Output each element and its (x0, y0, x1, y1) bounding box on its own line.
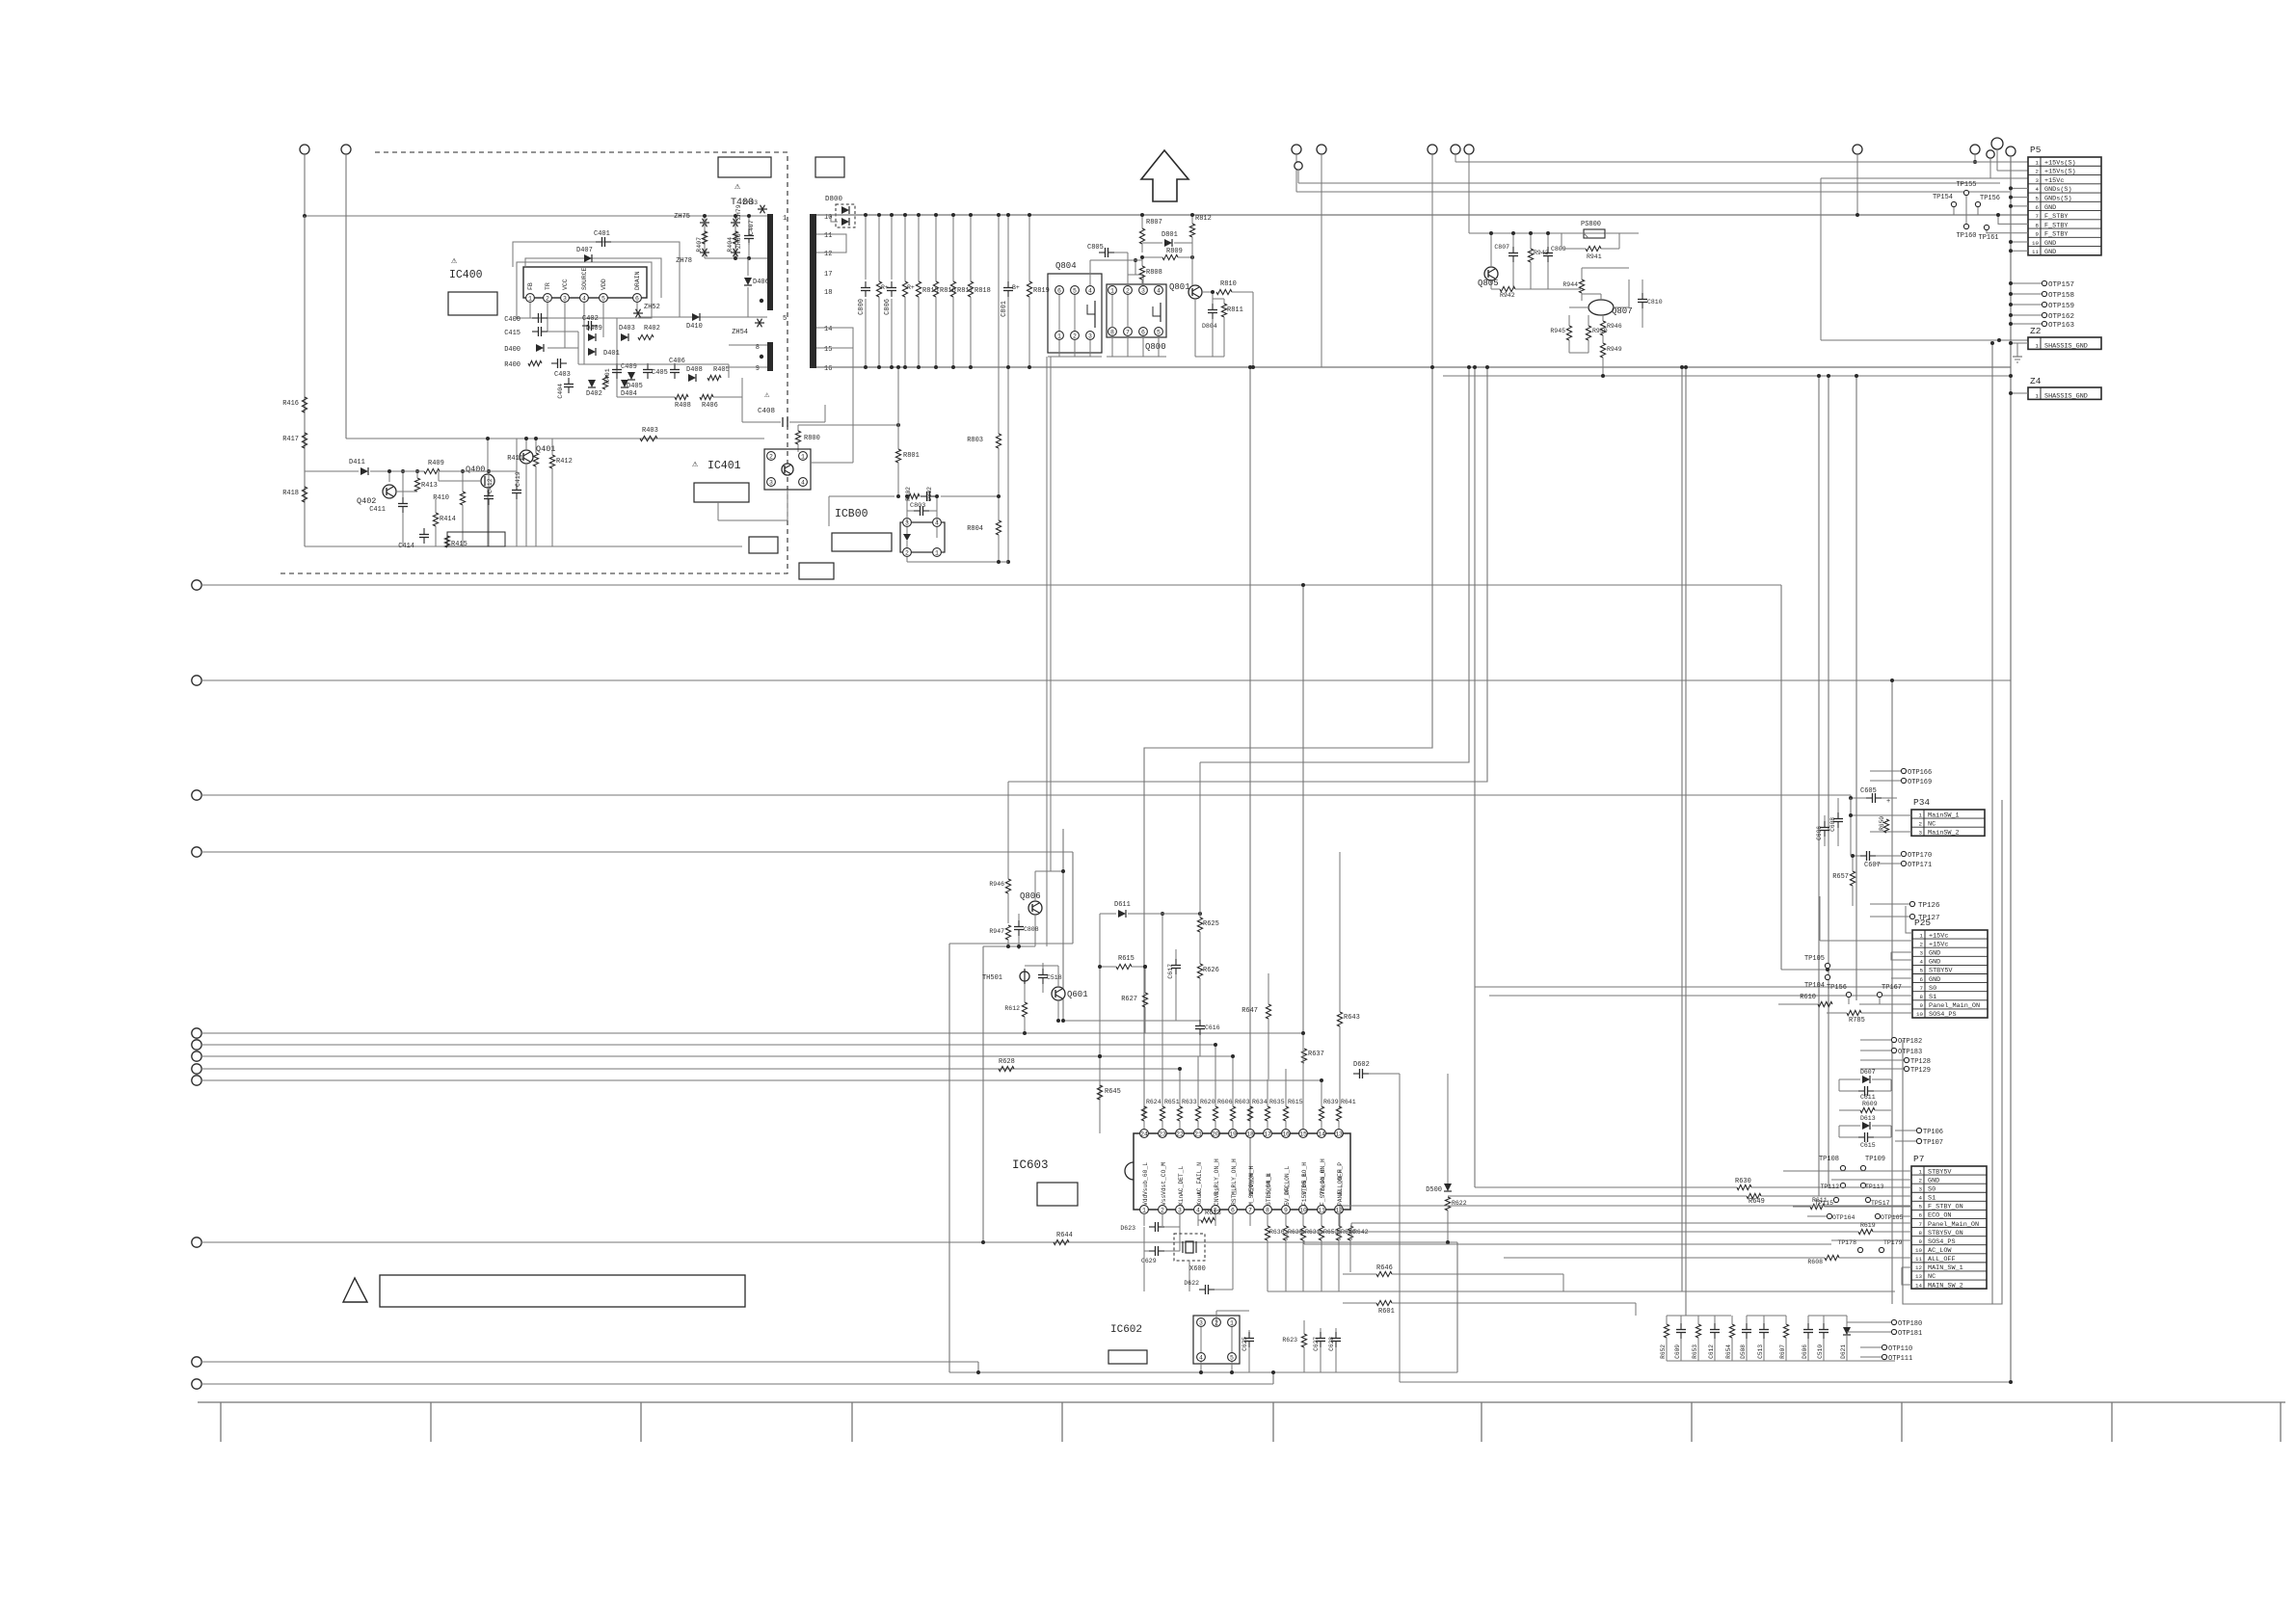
wire p5 f_stby row8 (1996, 213, 2028, 224)
diode D404 (621, 380, 637, 398)
diode D403 (619, 325, 635, 341)
spark gap ZH78 (676, 249, 709, 265)
svg-text:R802: R802 (905, 487, 912, 501)
svg-text:AC_FAIL_N: AC_FAIL_N (1196, 1162, 1203, 1195)
svg-text:ALL_OFF: ALL_OFF (1928, 1256, 1956, 1264)
ic IC603 label (1012, 1158, 1049, 1172)
svg-text:C605: C605 (1860, 787, 1877, 795)
test point TP156b (1827, 984, 1852, 1004)
opto-coupler Q800 (1107, 258, 1166, 357)
svg-text:R947: R947 (989, 928, 1004, 935)
mcu IC603 body (1125, 1133, 1350, 1210)
svg-text:R620: R620 (1200, 1099, 1215, 1105)
svg-text:R413: R413 (421, 482, 438, 490)
svg-text:R405: R405 (713, 366, 730, 374)
svg-text:R800: R800 (804, 435, 820, 442)
wire ic401 wires (657, 439, 853, 520)
svg-text:R601: R601 (1378, 1308, 1395, 1316)
svg-text:8: 8 (1920, 994, 1924, 1000)
svg-text:1: 1 (2036, 159, 2040, 166)
wire vert 1897 (1827, 374, 1830, 1187)
svg-text:10: 10 (1915, 1247, 1922, 1254)
test points OTP182/183 TP128/129 (1860, 1037, 1931, 1075)
capacitor C419 (512, 471, 521, 546)
resistor R809 (1142, 248, 1194, 260)
resistor R942 (1491, 280, 1581, 299)
transformer pin10 (824, 214, 832, 222)
capacitor C400 (504, 313, 547, 324)
test point OTP181 (1847, 1329, 1922, 1338)
svg-text:TP160: TP160 (1956, 232, 1976, 240)
svg-text:1: 1 (935, 550, 939, 557)
svg-text:R603: R603 (1235, 1099, 1250, 1105)
svg-text:D622: D622 (1184, 1280, 1199, 1287)
svg-text:3: 3 (2036, 177, 2040, 184)
svg-text:R646: R646 (1376, 1264, 1393, 1272)
crystal X600 (1174, 1213, 1206, 1291)
resistor R946 (1600, 315, 1621, 335)
node terminal 2065 (1987, 150, 2028, 178)
svg-text:C404: C404 (557, 384, 564, 399)
resistor R406 (700, 394, 718, 410)
svg-text:4: 4 (801, 480, 805, 487)
svg-text:R612: R612 (1004, 1005, 1020, 1012)
svg-text:P25: P25 (1914, 918, 1931, 928)
svg-text:R637: R637 (1308, 1051, 1324, 1058)
diode D411 (349, 459, 368, 475)
svg-text:15: 15 (1299, 1131, 1307, 1138)
resistor R949 (1600, 335, 1621, 378)
svg-text:GND: GND (1929, 959, 1940, 967)
svg-text:20: 20 (1212, 1131, 1219, 1138)
resistor R626 (1197, 964, 1218, 1021)
svg-text:STB5_ON_L: STB5_ON_L (1266, 1173, 1272, 1206)
svg-text:F15V_ON_L: F15V_ON_L (1301, 1173, 1308, 1206)
ICB00 part box (832, 533, 892, 551)
svg-text:D801: D801 (1161, 231, 1178, 239)
svg-text:C411: C411 (369, 506, 386, 514)
diode D602 (1322, 1061, 2013, 1384)
svg-text:R418: R418 (282, 490, 299, 497)
svg-text:4: 4 (1919, 1195, 1923, 1202)
svg-text:ZH52: ZH52 (644, 304, 660, 311)
svg-text:C808: C808 (1024, 926, 1039, 933)
test point TP517 (1865, 1197, 1889, 1207)
svg-text:VDD: VDD (601, 279, 607, 290)
node terminal 1486 (1428, 145, 1437, 367)
capacitor C412 (484, 469, 494, 546)
diode D801 (1142, 231, 1192, 253)
svg-text:11: 11 (1915, 1256, 1922, 1263)
svg-text:1: 1 (2036, 343, 2040, 350)
resistor R413 (414, 469, 437, 492)
capacitor C809 (1543, 231, 1566, 289)
svg-text:GND: GND (1928, 1177, 1939, 1184)
svg-text:R408: R408 (675, 402, 691, 410)
svg-text:5V_ON_L: 5V_ON_L (1284, 1180, 1291, 1206)
diode D410 (686, 313, 703, 331)
IC400 body (517, 262, 652, 318)
svg-text:3: 3 (1919, 1185, 1923, 1192)
transformer pin5 (760, 299, 787, 323)
wire p5 pin3 feed (1821, 178, 2028, 342)
op-amp IC400 label (449, 256, 483, 281)
svg-text:IC400: IC400 (449, 269, 483, 281)
wire vert 1530 (1473, 365, 1477, 1187)
diode D408 (686, 366, 703, 382)
svg-text:R633: R633 (1182, 1099, 1197, 1105)
svg-text:4: 4 (1920, 959, 1924, 966)
IC603 bottom pins (1140, 1206, 1344, 1214)
svg-text:R944: R944 (1562, 281, 1578, 288)
resistor R645 (1097, 1054, 1120, 1133)
wire pin5 line (638, 316, 767, 318)
wire p7 row12 (1902, 1267, 1911, 1285)
resistor R628 (999, 1058, 1015, 1072)
svg-text:7: 7 (2036, 213, 2040, 220)
svg-text:R647: R647 (1241, 1007, 1258, 1015)
test point TP154 (1933, 194, 1957, 215)
test point TP112 (1820, 1183, 1845, 1190)
svg-text:3: 3 (1088, 333, 1092, 340)
svg-text:R650: R650 (1879, 816, 1885, 831)
wire icb00 nets (829, 494, 1008, 564)
wire zh rail (705, 256, 769, 260)
capacitor C810 (1638, 279, 1663, 328)
connector P5 (2028, 145, 2101, 256)
resistor R943 (1528, 231, 1548, 289)
svg-text:TP105: TP105 (1804, 955, 1825, 963)
svg-text:R608: R608 (1807, 1259, 1823, 1265)
svg-text:R619: R619 (1860, 1222, 1876, 1229)
wire q800 top net (1090, 260, 1142, 285)
svg-text:AC_LOW: AC_LOW (1928, 1247, 1952, 1255)
svg-text:3: 3 (563, 296, 567, 303)
svg-text:R654: R654 (1725, 1344, 1732, 1359)
node terminal 2049 (1970, 145, 1980, 164)
svg-text:TP129: TP129 (1910, 1067, 1931, 1075)
test point TP178 (1837, 1239, 1862, 1253)
wire join block (949, 944, 1457, 1372)
svg-text:2: 2 (1920, 941, 1924, 947)
svg-text:FB: FB (527, 282, 534, 290)
svg-text:ZH80: ZH80 (735, 233, 742, 249)
resistor R613 (1198, 1210, 1221, 1223)
svg-text:D404: D404 (621, 390, 637, 398)
svg-text:R627: R627 (1121, 996, 1137, 1003)
svg-text:R416: R416 (282, 400, 299, 408)
svg-text:+15Vc: +15Vc (1929, 941, 1948, 948)
transistor Q400 (439, 437, 494, 546)
transformer T400 primary bar2 (767, 342, 773, 371)
svg-text:C407: C407 (748, 220, 755, 235)
resistor R946b (989, 782, 1010, 923)
svg-text:Z4: Z4 (2030, 376, 2042, 386)
diode D400 (504, 344, 544, 354)
svg-text:+: + (1886, 798, 1890, 806)
svg-text:5: 5 (1919, 1204, 1923, 1211)
svg-text:11: 11 (1318, 1208, 1325, 1214)
svg-text:TP128: TP128 (1910, 1058, 1931, 1066)
svg-text:IC603: IC603 (1012, 1158, 1049, 1172)
test point TP109 (1860, 1156, 1885, 1171)
svg-text:Vss: Vss (1161, 1194, 1167, 1206)
svg-text:R942: R942 (1500, 292, 1515, 299)
resistor R409 (424, 460, 444, 474)
svg-text:15: 15 (824, 346, 832, 354)
capacitor C406 (669, 358, 685, 379)
capacitor D802 (921, 487, 936, 501)
resistor R950 (1586, 315, 1607, 353)
connector Z2 (2009, 326, 2101, 351)
svg-text:R625: R625 (1203, 920, 1219, 928)
svg-text:R414: R414 (440, 516, 456, 523)
svg-text:2: 2 (1126, 288, 1130, 295)
wire p7 row7 long (1350, 1223, 1352, 1240)
test point TP107 (1895, 1138, 1943, 1147)
svg-text:OTP164: OTP164 (1832, 1214, 1855, 1221)
svg-text:M_SW_ON_H: M_SW_ON_H (1248, 1173, 1255, 1206)
resistor R637 (1301, 1049, 1323, 1063)
test point TP105 (1804, 955, 1830, 971)
connector P7 (1911, 1154, 1987, 1290)
svg-text:STBY5V: STBY5V (1928, 1168, 1952, 1176)
svg-text:2: 2 (1073, 333, 1077, 340)
svg-text:9: 9 (2036, 231, 2040, 238)
capacitor C625 (1241, 1330, 1254, 1372)
test point OTP180 (1847, 1319, 1922, 1328)
svg-text:R809: R809 (1166, 248, 1183, 255)
svg-text:1: 1 (783, 215, 787, 223)
test point TP167 (1877, 984, 1902, 1004)
wire bottom rails (1268, 1291, 1895, 1361)
transformer pin14 (816, 326, 839, 333)
capacitor C415 (504, 327, 547, 337)
svg-text:R402: R402 (644, 325, 660, 333)
svg-text:R812: R812 (1195, 215, 1212, 223)
svg-text:F_STBY: F_STBY (2044, 222, 2068, 229)
capacitor C801 column (1001, 213, 1020, 564)
svg-text:TP104: TP104 (1804, 982, 1825, 990)
resistor R408 (675, 394, 691, 410)
diode D409 (586, 325, 602, 341)
wire d622 c625 (1216, 1311, 1249, 1330)
svg-text:C807: C807 (1494, 244, 1509, 251)
svg-text:C518: C518 (1047, 974, 1062, 981)
svg-text:C608: C608 (1829, 817, 1836, 832)
resistor R414 (433, 499, 455, 546)
capacitor C402 (582, 315, 599, 331)
diode D407 loop (525, 247, 661, 298)
resistor R819 column (1027, 213, 1049, 369)
capacitor C607 (1851, 851, 1901, 869)
capacitor C414 (398, 528, 429, 550)
IC603 column risers (1178, 1031, 1323, 1106)
resistor R601 (1343, 1300, 1636, 1316)
svg-text:R641: R641 (1341, 1099, 1356, 1105)
diode D402 (586, 380, 602, 398)
test point TP126 (1870, 901, 1940, 910)
svg-text:TP126: TP126 (1918, 902, 1940, 910)
svg-text:TP161: TP161 (1978, 234, 1998, 242)
svg-text:SOURCE: SOURCE (581, 267, 588, 290)
connector Z4 (2009, 376, 2101, 401)
svg-text:4: 4 (1157, 288, 1161, 295)
svg-text:R818: R818 (974, 287, 991, 295)
IC401 part box (694, 483, 749, 502)
svg-text:SOS4_PS: SOS4_PS (1929, 1011, 1957, 1019)
wire q805 rail (1469, 231, 1639, 267)
transistor Q806 (1020, 891, 1042, 915)
svg-text:1: 1 (1920, 932, 1924, 939)
svg-text:Xout: Xout (1196, 1191, 1203, 1206)
resistor R644 (1054, 1232, 1073, 1245)
capacitor C623 (1120, 1213, 1180, 1232)
svg-text:B+: B+ (1012, 284, 1020, 291)
svg-text:Panel_Main_ON: Panel_Main_ON (1928, 1221, 1979, 1229)
IC603 part box (1037, 1183, 1078, 1206)
resistor R611 (1793, 1197, 1911, 1210)
svg-text:C803: C803 (910, 502, 925, 510)
resistors below IC603 (1144, 1213, 1356, 1291)
svg-text:MainSW_2: MainSW_2 (1928, 830, 1960, 838)
resistor R608 (1504, 1255, 1911, 1265)
svg-text:R412: R412 (556, 458, 573, 466)
svg-text:13: 13 (1915, 1273, 1922, 1280)
test point OTP166 (1870, 768, 1932, 777)
svg-text:7: 7 (1920, 985, 1924, 992)
svg-text:D405: D405 (627, 383, 643, 390)
label box A (718, 157, 771, 177)
resistor R800 (795, 423, 900, 452)
svg-text:P7: P7 (1913, 1154, 1924, 1164)
wire q807 links (1569, 268, 1629, 353)
warning tri T400 (731, 182, 754, 208)
svg-text:R615: R615 (1288, 1099, 1303, 1105)
svg-text:D606: D606 (1802, 1344, 1808, 1359)
svg-text:AC_DET_L: AC_DET_L (1178, 1166, 1185, 1195)
svg-text:C415: C415 (504, 330, 521, 337)
resistor PS800 (1562, 221, 1619, 238)
svg-text:9: 9 (1920, 1002, 1924, 1009)
svg-text:R409: R409 (428, 460, 444, 467)
svg-text:TP155: TP155 (1956, 181, 1976, 189)
svg-text:SOS4_PS: SOS4_PS (1928, 1238, 1956, 1246)
capacitor C605 (1849, 787, 1897, 806)
capacitor C804 (1202, 290, 1217, 357)
svg-text:R946: R946 (1607, 323, 1622, 330)
svg-text:TR: TR (545, 282, 551, 290)
svg-text:R785: R785 (1849, 1017, 1865, 1024)
svg-text:R407: R407 (696, 237, 703, 253)
svg-text:⚠: ⚠ (451, 256, 458, 267)
svg-text:D613: D613 (1860, 1115, 1876, 1122)
resistor R610 (1778, 994, 1912, 1007)
svg-text:R400: R400 (504, 361, 521, 369)
svg-text:R949: R949 (1607, 346, 1622, 353)
wire main return trunk (816, 366, 2011, 368)
svg-text:ZH75: ZH75 (674, 213, 690, 221)
svg-text:TP178: TP178 (1837, 1239, 1856, 1246)
svg-text:22: 22 (1176, 1131, 1184, 1138)
svg-text:R645: R645 (1105, 1088, 1121, 1096)
test points OTP157-163 (2009, 280, 2075, 330)
svg-text:⚠: ⚠ (764, 390, 770, 400)
svg-text:3: 3 (1178, 1208, 1182, 1214)
svg-text:D804: D804 (1202, 323, 1217, 330)
svg-text:4: 4 (1199, 1355, 1203, 1362)
svg-text:+15Vs(S): +15Vs(S) (2044, 169, 2076, 176)
resistor R630 (1475, 1178, 1911, 1190)
svg-text:R649: R649 (1749, 1198, 1765, 1206)
svg-text:3: 3 (1141, 288, 1145, 295)
svg-text:CNVss: CNVss (1214, 1187, 1220, 1206)
svg-text:C612: C612 (1708, 1344, 1715, 1359)
svg-text:D408: D408 (686, 366, 703, 374)
spark gap ZH53 (742, 200, 767, 213)
connector P25 (1912, 918, 1988, 1019)
svg-text:D607: D607 (1860, 1069, 1876, 1076)
label box B (815, 157, 844, 177)
svg-text:R607: R607 (1779, 1344, 1786, 1359)
wire p34 frame (1851, 795, 2000, 864)
wire p7 row5 long (1340, 1206, 1911, 1240)
capacitor C411 (369, 469, 408, 546)
diode D611 (1098, 901, 1202, 1133)
svg-text:OTP165: OTP165 (1881, 1214, 1904, 1221)
svg-text:R417: R417 (282, 436, 299, 443)
ic IC602 label (1110, 1324, 1142, 1336)
wire 1510 feed (1455, 161, 1975, 163)
resistor R623 (1282, 1320, 1306, 1372)
svg-text:6: 6 (2036, 204, 2040, 211)
warning note box (343, 1275, 745, 1307)
test point TP113 (1860, 1183, 1883, 1190)
svg-text:R639: R639 (1323, 1099, 1339, 1105)
resistor R415 (444, 532, 505, 548)
svg-text:GND: GND (2044, 204, 2056, 212)
svg-text:17: 17 (1264, 1131, 1271, 1138)
wire vert 1963 (1890, 678, 1894, 1304)
resistor R802 (905, 487, 920, 501)
regulator IC602 body (1193, 1316, 1240, 1364)
svg-text:OTP157: OTP157 (2048, 281, 2074, 289)
spark gap ZH79 (731, 204, 742, 258)
node terminal 1371 (1317, 145, 1326, 367)
IC400 part box (448, 292, 497, 315)
svg-text:2: 2 (769, 454, 773, 461)
IC603 pin names (1142, 1158, 1344, 1206)
node terminal 2086 (2006, 146, 2016, 1382)
resistor R412 (549, 439, 572, 546)
svg-text:C629: C629 (1141, 1258, 1157, 1264)
svg-text:IC602: IC602 (1110, 1324, 1142, 1336)
svg-text:2: 2 (1919, 820, 1923, 827)
svg-text:D602: D602 (1353, 1061, 1370, 1069)
resistor R625 (1197, 762, 1218, 964)
resistor R810 (1216, 280, 1255, 369)
svg-text:S1: S1 (1929, 994, 1936, 1001)
wire vert 1352 (1301, 583, 1305, 1033)
resistor R804 (967, 496, 1001, 562)
svg-text:C615: C615 (1860, 1142, 1876, 1149)
capacitor C611 (1839, 1079, 1891, 1101)
resistor R403 (640, 427, 658, 441)
svg-text:24: 24 (1140, 1131, 1148, 1138)
wire sec cluster (578, 332, 729, 378)
resistor R941 (1562, 233, 1619, 260)
svg-text:R630: R630 (1735, 1178, 1751, 1185)
